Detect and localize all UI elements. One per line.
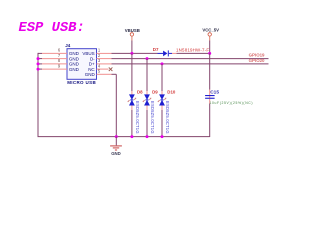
connector J4 pin 5 stub [97,73,112,75]
svg-text:ESD5Z5.0CT1G: ESD5Z5.0CT1G [165,101,170,134]
TVS diode D10 bottom pin stub [160,99,163,100]
wire D8 lower vertical [131,110,133,137]
wire D- row pin2 to GPIO19 [112,58,269,60]
TVS diode D10 symbol [158,94,166,105]
wire D10 lower vertical [161,110,163,137]
node junction rail at D9 [146,135,149,138]
svg-text:MICRO USB: MICRO USB [67,80,96,85]
capacitor C15 top plate [205,95,215,96]
connector J4 body (MICRO USB) [67,49,97,80]
connector J4 pin 7 stub [42,58,67,60]
wire D10 upper vertical [161,64,163,91]
svg-text:GND: GND [69,67,80,72]
wire D8 upper vertical [131,53,133,91]
TVS diode D9 symbol [143,94,151,105]
diode D7 cathode lead [169,52,172,54]
power port VBUSB pin stub [131,36,133,40]
wire D7 cathode to VCC node [176,52,209,54]
TVS diode D10 top pin stub [161,91,163,95]
TVS diode D8 symbol [128,94,136,105]
connector J4 pin 3 stub [97,63,112,65]
TVS diode D9 top pin stub [146,91,148,95]
svg-text:D7: D7 [153,47,159,52]
svg-text:C15: C15 [210,90,219,96]
TVS diode D8 bottom pin stub [130,99,133,100]
connector J4 pin 8 stub [42,63,67,65]
diode D7 anode lead [158,52,164,54]
wire VBUSB to VBUS row [131,41,133,54]
wire VBUS row pin1 to D7 anode [112,52,158,54]
no-connect X on pin 4 [109,67,113,71]
ground symbol bars [110,146,122,150]
svg-text:ESD5Z5.0CT1G: ESD5Z5.0CT1G [135,101,140,134]
svg-text:J4: J4 [65,43,71,48]
wire GND pin7 to left bus [38,58,42,60]
wire GND pin6 to left bus [38,52,42,54]
svg-text:VBUSB: VBUSB [125,28,140,33]
svg-text:10uF(25V)(25%)(NC): 10uF(25V)(25%)(NC) [210,101,253,105]
capacitor C15 bottom pin stub [209,99,211,104]
wire D9 lower vertical [146,110,148,137]
capacitor C15 top pin stub [209,90,211,100]
wire GND pin5 to ground drop [112,73,117,75]
connector J4 pin 6 stub [42,52,67,54]
svg-text:D9: D9 [152,89,158,94]
wire left GND bus vertical [37,53,39,137]
wire D+ row pin3 to GPIO20 [112,63,269,65]
svg-text:1N5819HW-7-F: 1N5819HW-7-F [176,47,209,52]
TVS diode D8 top pin stub [131,91,133,95]
node junction rail at D10 [161,135,164,138]
svg-text:GND: GND [85,72,96,77]
svg-text:GND: GND [111,151,121,156]
diode D7 symbol cathode bar [168,50,169,56]
capacitor C15 bottom plate [205,98,215,99]
svg-text:VCC_5V: VCC_5V [202,27,219,32]
svg-text:D-: D- [90,56,95,61]
sheet background [0,0,299,168]
node junction left bus pin7 [37,57,40,60]
power port VCC_5V pin stub [209,36,211,40]
TVS diode D9 bottom pin stub [145,99,148,100]
wire GND pin9 to left bus [38,68,42,70]
wire C15 to ground rail [209,104,211,138]
svg-text:ESP USB:: ESP USB: [19,21,85,36]
connector J4 pin 2 stub [97,58,112,60]
node junction left bus pin8 [37,62,40,65]
diode D7 symbol triangle [163,51,167,57]
svg-text:D8: D8 [137,89,143,94]
connector J4 pin 4 stub [97,68,109,70]
svg-text:ESD5Z5.0CT1G: ESD5Z5.0CT1G [150,101,155,134]
node junction VBUS/VBUSB/D8 [130,52,133,55]
svg-text:GPIO19: GPIO19 [249,53,265,58]
svg-text:GND: GND [69,56,80,61]
wire bottom ground rail [38,136,210,138]
svg-text:D10: D10 [167,90,176,95]
wire ground drop vertical [115,74,117,136]
connector J4 pin 9 stub [42,68,67,70]
node junction D- / D9 [146,57,149,60]
svg-text:GPIO20: GPIO20 [249,58,265,63]
node junction VCC_5V/D7/C15 [208,52,211,55]
diode D7 cathode pin stub [172,52,176,54]
node junction left bus pin9 [37,68,40,71]
wire GND pin8 to left bus [38,63,42,65]
wire VCC node down to C15 [209,53,211,89]
power port VBUSB circle [130,33,133,36]
power port VCC_5V circle [208,33,211,36]
connector J4 pin 1 stub [97,52,112,54]
node junction rail at ground symbol [115,135,118,138]
ground symbol stem [115,137,117,146]
node junction D+ / D10 [161,62,164,65]
wire VCC_5V to node [209,41,211,54]
node junction rail at D8 [130,135,133,138]
wire D9 upper vertical [146,59,148,91]
